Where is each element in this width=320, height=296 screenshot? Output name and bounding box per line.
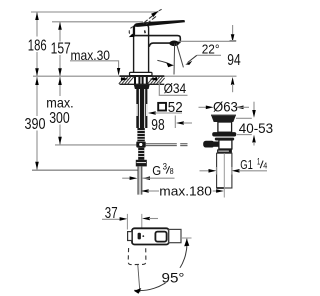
- drain flange: [211, 116, 235, 122]
- arc arrowheads: [184, 239, 189, 247]
- svg-text:1: 1: [257, 156, 260, 166]
- handle cap dark left edge: [133, 26, 135, 35]
- svg-text:Ø34: Ø34: [164, 81, 187, 96]
- svg-text:52: 52: [168, 100, 183, 116]
- wire extension line hose end right (at y 144.9): [55, 144, 137, 146]
- arc reference line: [180, 237, 192, 239]
- svg-text:95°: 95°: [162, 270, 185, 286]
- lever swivel dashed arc at cap left: [129, 27, 133, 37]
- label square-52: [158, 103, 166, 111]
- svg-text:94: 94: [227, 52, 241, 69]
- bottom view spout tab: [128, 232, 132, 241]
- supply pipe G3/8: [138, 166, 143, 194]
- bottom view aerator mark: [138, 233, 141, 240]
- svg-text:98: 98: [151, 117, 165, 134]
- drain locknut top: [215, 138, 234, 141]
- label Ø34 with L-frame: [159, 81, 187, 96]
- hose coupling nut: [136, 160, 147, 167]
- dimension 390 line (below deck): [36, 77, 38, 170]
- svg-text:390: 390: [25, 116, 46, 133]
- 22 degree stream lines: [173, 44, 176, 75]
- drain upper neck: [218, 122, 232, 132]
- drain washer: [212, 132, 236, 136]
- svg-text:157: 157: [51, 41, 71, 58]
- dimension Ø34 hole arrows: [121, 78, 123, 80]
- dimension G3/8 pipe arrows: [122, 177, 130, 179]
- drain centerline: [223, 153, 225, 197]
- mounting locknut below deck: [134, 85, 150, 89]
- threaded mounting rod: [137, 128, 144, 141]
- horizontal pop-up linkage rod: [146, 143, 177, 145]
- 95 degree arc: [134, 239, 187, 291]
- pop-up waste drain: Ø63 dimension: [199, 106, 207, 108]
- svg-text:3: 3: [163, 162, 167, 172]
- dimension 40-53: [236, 117, 252, 119]
- faucet spout (top line from cap bottom, nose, underside): [134, 36, 181, 47]
- dimension 37: [102, 218, 120, 220]
- counter deck bottom line: [120, 83, 165, 85]
- leader max.30: [70, 61, 119, 69]
- faucet base plate: [130, 72, 153, 75]
- faucet body column with rounded cap top: [134, 25, 149, 73]
- svg-text:8: 8: [170, 166, 174, 176]
- supply hose bundle: [136, 89, 147, 128]
- svg-text:Ø63: Ø63: [213, 99, 238, 114]
- drain flange top line: [211, 114, 236, 116]
- counter deck cross-section top line: [120, 75, 165, 77]
- lever raised arrow: [151, 11, 159, 17]
- svg-text:186: 186: [28, 37, 47, 54]
- leader 22 degrees: [188, 55, 197, 62]
- svg-text:max.180: max.180: [159, 184, 212, 199]
- swivel centerline: [138, 265, 140, 293]
- svg-text:G: G: [152, 163, 161, 178]
- bottom view body outline: [132, 228, 169, 244]
- pop-up rod ball joint node: [136, 141, 145, 147]
- svg-text:300: 300: [49, 110, 70, 127]
- deck hatching left: [119, 77, 134, 84]
- drain pull-rod knob: [203, 141, 214, 148]
- faucet shank through deck: [135, 77, 147, 84]
- dimension max.180: [141, 189, 149, 193]
- svg-text:G1: G1: [240, 157, 253, 172]
- stream angle arc with arrow: [157, 60, 170, 64]
- bottom view lever cap square: [155, 232, 166, 242]
- svg-text:4: 4: [263, 161, 267, 171]
- spout outlet extension line: [178, 40, 236, 42]
- wire extension line hose end (390/300 bottom ref): [32, 169, 138, 171]
- deck hatching right: [148, 77, 165, 84]
- swivel dashed spout position: [128, 248, 146, 265]
- lever raised dashed indicator: [143, 14, 156, 24]
- 37 extension lines: [126, 214, 128, 230]
- dimension 94: [232, 25, 234, 35]
- drain body: [219, 140, 232, 149]
- drain nut band: [217, 149, 232, 153]
- deck extension line: [33, 75, 237, 77]
- dimension 300 line (below deck): [59, 77, 61, 145]
- dimension 98 tick and arrow: [174, 116, 176, 129]
- handle cap inner tick: [144, 30, 147, 33]
- drain tailpipe G1 1/4: [217, 153, 232, 188]
- dimension 157 line: [59, 22, 61, 76]
- faucet lever (dark): [134, 20, 185, 27]
- aerator at spout end: [169, 41, 179, 47]
- bottom view right (lever end) box: [169, 229, 181, 242]
- threaded stud below node: [138, 148, 144, 160]
- wire extension line (157 ref, lever top): [52, 21, 143, 23]
- lever swivel arc arrowhead: [129, 34, 135, 38]
- dimension G1 1/4 leader: [232, 169, 240, 173]
- G1 1/4 pipe diameter arrows: [200, 170, 210, 172]
- label 95 degrees: [160, 268, 187, 283]
- svg-text:22°: 22°: [202, 42, 220, 57]
- wire extension line top (186 ref, lever raised tip): [31, 11, 159, 13]
- leader square-52: [148, 111, 156, 115]
- dimension 186 line: [36, 12, 38, 76]
- svg-text:max.: max.: [46, 94, 73, 110]
- svg-text:40-53: 40-53: [239, 120, 273, 136]
